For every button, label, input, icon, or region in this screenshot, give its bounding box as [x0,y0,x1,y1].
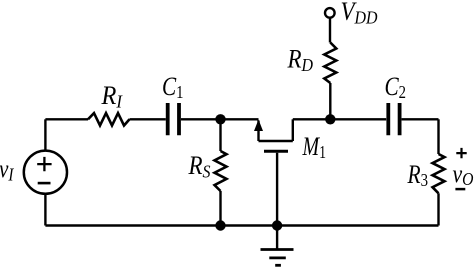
resistor R_3 [433,154,445,193]
svg-text:RI: RI [101,81,123,112]
wire right vertical down to R_3 [437,119,439,154]
transistor M1 source arrow [254,120,263,132]
wire left vertical (top rail to source circle) [44,119,46,149]
svg-text:VDD: VDD [341,0,378,28]
transistor M1 gate wire to ground rail [276,153,278,226]
svg-text:RD: RD [287,44,313,75]
wire R_S to bottom rail [219,191,221,226]
voltage source minus sign [38,182,51,185]
wire bottom rail [45,224,438,226]
wire top-left horizontal (source top to R_I) [45,118,88,120]
resistor R_S [215,151,227,191]
terminal V_DD open circle [325,8,335,18]
transistor M1 channel [259,140,293,142]
svg-text:RS: RS [188,151,211,182]
drain node junction dot [325,114,335,124]
transistor M1 drain lead [292,119,294,141]
capacitor C_1 [168,103,179,135]
voltage source v_I [24,151,67,194]
transistor M1 source lead [257,121,259,142]
capacitor C_2 [388,103,399,135]
wire drain node to C_2 [330,118,386,120]
wire R_3 to bottom rail [437,193,439,225]
resistor R_I [88,113,130,125]
bottom node at gate/ground junction dot [272,220,282,230]
wire R_I to C_1 [130,118,166,120]
wire C_1 to node A [181,118,221,120]
node A junction dot [215,114,225,124]
output minus sign [455,188,465,191]
wire node A to MOSFET source [221,118,259,120]
svg-text:vO: vO [453,161,474,189]
svg-text:vI: vI [0,156,14,185]
wire drain to R_D node [293,118,331,120]
ground symbol [261,248,294,251]
wire node A down to R_S [219,119,221,151]
svg-text:C2: C2 [385,72,407,102]
svg-text:C1: C1 [162,72,184,102]
wire R_D to drain node [329,83,331,119]
svg-text:R3: R3 [407,160,428,190]
wire left vertical (source circle to bottom rail) [44,195,46,226]
output plus sign [456,148,466,158]
voltage source plus sign [37,157,51,171]
ground lead [276,226,278,250]
transistor M1 gate bar [264,150,288,153]
svg-text:M1: M1 [302,132,326,162]
wire V_DD terminal to R_D [329,19,331,43]
bottom node below R_S junction dot [215,220,225,230]
wire C_2 to right corner [402,118,439,120]
resistor R_D [324,43,336,84]
